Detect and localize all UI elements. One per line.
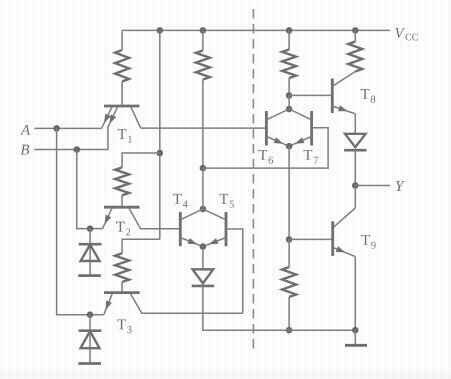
wire input B elbow (34, 127, 108, 150)
wire T8 base wire (289, 94, 332, 96)
transistor T3 collector (130, 293, 243, 313)
diode D3 (345, 134, 366, 147)
transistor T6 emitter (266, 137, 289, 147)
wire T9 base (289, 238, 333, 240)
transistor T5 collector (203, 209, 226, 220)
wire T8base to diamond (288, 95, 290, 109)
wire Y to T9 (354, 186, 356, 209)
label T7 (304, 150, 313, 160)
transistor T5 emitter (203, 238, 226, 247)
resistor R2p (196, 51, 210, 80)
transistor T3 bar (104, 291, 140, 294)
transistor T1 collector (131, 107, 141, 128)
resistor R3 (115, 253, 129, 282)
divider dashed line (252, 9, 254, 352)
transistor T9 collector (333, 208, 356, 228)
transistor T9 emitter (333, 247, 356, 256)
node D1 top (87, 225, 94, 232)
node XV-153 (157, 150, 164, 157)
wire R2 to T2 (121, 195, 123, 207)
wire bottom rail (203, 329, 355, 331)
wire R5 top (288, 239, 290, 267)
node T6T7 top (286, 106, 293, 113)
transistor T2 bar (104, 206, 140, 209)
wire input A (34, 127, 101, 129)
wire T6T7 to T9base (288, 146, 290, 239)
resistor R5 (282, 267, 296, 297)
label T8 (361, 89, 370, 99)
wire to R2 top (122, 153, 160, 167)
wire R3p to node (288, 78, 290, 95)
label T1 (118, 129, 127, 139)
label T4 (173, 194, 182, 204)
transistor T8 emitter (332, 106, 355, 114)
node T8-base (286, 92, 293, 99)
node D2 top (87, 311, 94, 318)
transistor T7 collector (289, 109, 312, 120)
transistor T1 emitter2 (108, 107, 118, 127)
transistor T7 emitter (289, 137, 312, 147)
node rail-1 (157, 27, 164, 34)
wire R5 to rail (288, 297, 290, 330)
transistor T1 emitter1 (102, 107, 112, 129)
wire T5 base loop (226, 229, 243, 313)
label T2 (116, 222, 125, 232)
node T4T5 top (200, 206, 207, 213)
node rail-2 (200, 27, 207, 34)
diode D2 (79, 329, 102, 332)
wire R2p top (202, 30, 204, 50)
wire R3p top (288, 30, 290, 49)
wire R3 to T3 (121, 282, 123, 292)
transistor T4 bar (179, 212, 182, 246)
diode D4 (193, 269, 214, 283)
transistor T2 emitter (103, 208, 112, 229)
node T4T5 bottom (200, 243, 207, 250)
node T6T7 bottom (286, 143, 293, 150)
wire R1 to T1 base (121, 82, 123, 106)
wire N168 to diamond (202, 168, 204, 209)
wire R2p to node (202, 80, 204, 169)
wire D4 to rail (203, 286, 289, 330)
wire Y lead (355, 185, 390, 187)
label T5 (220, 194, 229, 204)
wire D1 stem (89, 229, 91, 275)
transistor T1 bar (104, 105, 140, 108)
transistor T7 bar (310, 111, 313, 146)
node N168 (200, 165, 207, 172)
ground D1 (78, 274, 101, 277)
node ground (352, 327, 359, 334)
transistor T6 collector (266, 109, 289, 120)
label T3 (117, 319, 126, 329)
transistor T8 collector (332, 72, 355, 87)
transistor T8 bar (331, 79, 334, 114)
label V_CC (395, 28, 405, 38)
transistor T4 emitter (180, 238, 203, 247)
node rail-4 (352, 27, 359, 34)
wire T7 base loop (203, 128, 328, 168)
node T9 base (286, 236, 293, 243)
node B (74, 146, 81, 153)
node R5 rail (286, 327, 293, 334)
diode D1 (79, 243, 102, 246)
transistor T9 bar (331, 221, 334, 256)
label T6 (259, 150, 268, 160)
node rail-3 (286, 27, 293, 34)
wire T1C to T6 base (141, 127, 267, 129)
resistor R2 (115, 167, 129, 195)
transistor T5 bar (225, 212, 228, 246)
wire R1 top (121, 30, 123, 50)
ground (354, 330, 356, 344)
wire D4 stem (202, 247, 204, 269)
transistor T2 collector (129, 208, 180, 229)
resistor R3p (282, 50, 296, 79)
wire T8e to D3 (354, 114, 356, 134)
transistor T3 emitter (104, 293, 113, 314)
ground D2 (78, 362, 101, 365)
wire V_CC rail (122, 29, 390, 31)
wire A down-left (57, 128, 104, 314)
node Y (352, 182, 359, 189)
transistor T6 bar (265, 111, 268, 146)
wire B down (77, 150, 103, 229)
resistor R4 (348, 42, 362, 72)
resistor R1 (115, 50, 129, 82)
wire T9 emitter down (354, 257, 356, 331)
label Y (396, 181, 405, 191)
wire R4 top (354, 30, 356, 41)
wire D2 stem (89, 315, 91, 363)
label T9 (361, 235, 370, 245)
wire long vertical (159, 30, 161, 239)
wire D3 to Y (354, 150, 356, 185)
label B (21, 145, 30, 155)
label A (20, 125, 30, 135)
wire XV to R3 (122, 239, 160, 253)
node A (53, 125, 60, 132)
transistor T4 collector (180, 209, 203, 220)
